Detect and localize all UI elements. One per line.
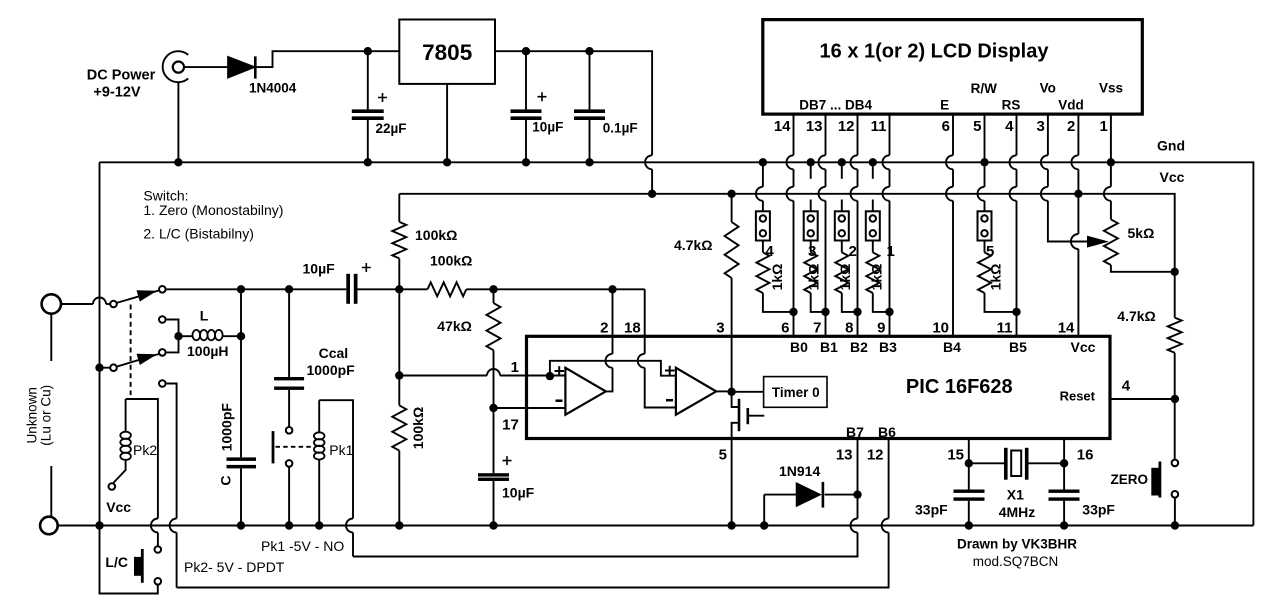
wire jack stem to Gnd rail xyxy=(177,82,179,162)
wire tank node xyxy=(240,289,242,457)
label 1kOhm xyxy=(869,264,885,291)
label Pk2 xyxy=(133,442,157,458)
terminal Vcc (Pk2 coil) xyxy=(109,483,116,490)
dashed DPDT link xyxy=(130,305,132,396)
wire diode to top rail xyxy=(257,51,400,67)
switch arm2 with arrow xyxy=(117,354,160,367)
wire node to Timer 0 xyxy=(732,391,764,393)
svg-text:X1: X1 xyxy=(1007,487,1024,503)
switch throw A xyxy=(159,286,166,293)
svg-text:0.1µF: 0.1µF xyxy=(603,121,638,136)
svg-text:6: 6 xyxy=(781,319,789,336)
svg-text:11: 11 xyxy=(997,319,1013,336)
svg-text:4MHz: 4MHz xyxy=(999,504,1036,520)
svg-text:2: 2 xyxy=(600,319,608,336)
resistor R 100k (horizontal) xyxy=(428,282,467,296)
svg-text:12: 12 xyxy=(867,447,884,464)
svg-text:Pk1: Pk1 xyxy=(329,442,353,458)
label 47kOhm xyxy=(437,318,472,334)
jumper JP3 xyxy=(804,162,818,240)
op-amp U1a xyxy=(565,368,605,415)
svg-text:5kΩ: 5kΩ xyxy=(1128,225,1155,241)
wire pin13 B7 xyxy=(857,439,859,519)
wire pin15 xyxy=(968,439,970,490)
label Drawn by VK3BHR xyxy=(957,537,1077,552)
inductor L 100uH xyxy=(179,330,242,340)
resistor R 1k (4) xyxy=(756,241,793,312)
terminal Unknown top xyxy=(42,294,61,313)
svg-text:1000pF: 1000pF xyxy=(219,403,235,452)
switch throw D xyxy=(159,380,166,387)
svg-text:15: 15 xyxy=(947,447,964,464)
svg-text:3: 3 xyxy=(1037,118,1045,135)
label 1kOhm xyxy=(806,264,822,291)
note Switch modes xyxy=(143,188,283,242)
switch throw B xyxy=(159,316,166,323)
svg-text:10µF: 10µF xyxy=(532,120,563,135)
label mod.SQ7BCN xyxy=(973,554,1059,569)
wire pin18 to op2 inverting xyxy=(644,289,646,354)
label Ccal 1000pF xyxy=(306,345,355,378)
capacitor C 33pF (right) xyxy=(1049,490,1080,526)
PIC port labels B0-B5 Vcc xyxy=(790,339,1096,355)
switch arm1 with arrow xyxy=(117,290,160,303)
label Unknown (Lu or Cu) rotated xyxy=(24,385,53,446)
svg-text:mod.SQ7BCN: mod.SQ7BCN xyxy=(973,554,1059,569)
wire Vcc line to Vcc rail xyxy=(651,169,653,194)
svg-text:B5: B5 xyxy=(1009,339,1027,355)
svg-text:33pF: 33pF xyxy=(1082,502,1115,518)
jumper JP2 xyxy=(835,162,849,240)
svg-text:Vcc: Vcc xyxy=(1160,169,1185,185)
svg-text:L: L xyxy=(200,308,209,324)
switch pole1 xyxy=(110,301,117,308)
svg-text:Gnd: Gnd xyxy=(1157,138,1185,154)
wire to pins 2 18 xyxy=(466,288,644,290)
wire Pk2 to L/C button xyxy=(126,399,158,519)
wire pin12 B6 xyxy=(888,439,890,519)
label PIC 16F628 xyxy=(906,376,1013,398)
resistor R 1k (5) xyxy=(978,241,1017,312)
label 100uH xyxy=(187,343,229,359)
svg-text:Drawn by VK3BHR: Drawn by VK3BHR xyxy=(957,537,1077,552)
switch pole2 xyxy=(110,364,117,371)
label X1 4MHz xyxy=(999,487,1036,521)
svg-text:Vo: Vo xyxy=(1040,81,1056,96)
LCD pin function labels xyxy=(799,81,1123,113)
wire LCD pin 6 E to PIC pin 10 xyxy=(952,114,954,155)
label 1kOhm xyxy=(988,264,1004,291)
label 5 xyxy=(986,243,994,260)
svg-text:Unknown: Unknown xyxy=(24,387,39,443)
svg-text:4: 4 xyxy=(1122,377,1131,394)
svg-text:Pk2: Pk2 xyxy=(133,442,157,458)
wire 1N914 anode to gnd xyxy=(763,495,765,526)
bottom Gnd rail xyxy=(58,525,1254,527)
svg-text:2: 2 xyxy=(849,243,857,260)
svg-text:10µF: 10µF xyxy=(502,485,535,501)
label 4.7kOhm xyxy=(1117,308,1155,324)
svg-text:1: 1 xyxy=(1100,118,1108,135)
wire throw D to B6 line xyxy=(166,384,177,519)
diode D1 1N4004 xyxy=(228,56,255,78)
op-amp U1b xyxy=(676,368,716,415)
wire op1 feedback xyxy=(550,361,676,376)
capacitor C 10uF (series) xyxy=(346,263,371,304)
svg-text:C: C xyxy=(218,476,234,486)
wire pin16 xyxy=(1063,439,1065,490)
svg-text:B3: B3 xyxy=(879,339,897,355)
svg-text:Pk2- 5V - DPDT: Pk2- 5V - DPDT xyxy=(184,559,285,575)
wire jack to diode xyxy=(184,66,228,68)
svg-text:DC Power: DC Power xyxy=(87,68,156,84)
label 22uF xyxy=(376,121,407,136)
svg-text:1kΩ: 1kΩ xyxy=(769,264,785,291)
microcontroller U1 PIC 16F628 box xyxy=(527,336,1111,438)
wire LCD pin 2 Vdd to Vcc and PIC pin 14 xyxy=(1077,114,1079,155)
svg-text:1: 1 xyxy=(887,243,895,260)
capacitor C 10uF (pin17) xyxy=(478,408,512,526)
wire cap to 100k xyxy=(358,288,428,290)
label L xyxy=(200,308,209,324)
resistor R 4.7k (pin 3) xyxy=(731,194,733,222)
resistor R 47k xyxy=(493,289,495,303)
diode D2 1N914 xyxy=(764,482,857,508)
pot wiper arrow xyxy=(1088,236,1108,247)
LCD pin numbers 14 13 12 11 6 5 4 3 2 1 xyxy=(774,118,1108,135)
svg-text:4.7kΩ: 4.7kΩ xyxy=(1117,308,1155,324)
svg-text:1. Zero (Monostabilny): 1. Zero (Monostabilny) xyxy=(143,202,283,218)
svg-text:PIC 16F628: PIC 16F628 xyxy=(906,376,1013,398)
PIC bottom pin numbers xyxy=(719,447,1094,464)
potentiometer R 5k xyxy=(1104,219,1118,265)
relay contact Pk1 xyxy=(273,427,312,467)
svg-text:7: 7 xyxy=(813,319,821,336)
relay coil Pk1 xyxy=(314,400,325,525)
svg-text:33pF: 33pF xyxy=(915,502,948,518)
svg-text:2: 2 xyxy=(1067,118,1075,135)
svg-text:Pk1 -5V - NO: Pk1 -5V - NO xyxy=(261,538,344,554)
jumper JP1 xyxy=(866,162,880,240)
regulator U2 7805 box xyxy=(399,20,495,84)
label Reset xyxy=(1060,389,1096,404)
Vcc rail xyxy=(399,194,1174,272)
wire LCD pin 3 Vo to pot wiper xyxy=(1047,114,1049,155)
label 4 xyxy=(765,243,774,260)
jumper JP5 xyxy=(978,211,992,240)
label 4.7kOhm xyxy=(674,237,712,253)
svg-text:16: 16 xyxy=(1077,447,1094,464)
svg-text:10: 10 xyxy=(932,319,949,336)
label 100kOhm rotated xyxy=(410,407,426,449)
LCD display module box xyxy=(763,20,1143,115)
label Vcc xyxy=(1160,169,1185,185)
label Pk1 -5V - NO xyxy=(261,538,344,554)
wire LCD pin 5 R/W to Gnd and jumper 5 xyxy=(984,114,986,187)
svg-text:B1: B1 xyxy=(820,339,838,355)
svg-text:1kΩ: 1kΩ xyxy=(988,264,1004,291)
svg-text:1000pF: 1000pF xyxy=(306,362,355,378)
svg-text:Vcc: Vcc xyxy=(1071,339,1096,355)
label 1kOhm xyxy=(769,264,785,291)
svg-text:E: E xyxy=(940,97,949,112)
wire top terminal to switch pole1 xyxy=(61,303,93,305)
svg-text:100kΩ: 100kΩ xyxy=(430,253,472,269)
capacitor C Ccal 1000pF xyxy=(274,377,304,427)
wire LCD pin 12 to PIC xyxy=(857,114,859,155)
svg-text:R/W: R/W xyxy=(971,81,998,96)
svg-text:1: 1 xyxy=(511,359,519,376)
svg-text:14: 14 xyxy=(774,118,791,135)
svg-text:11: 11 xyxy=(871,118,887,135)
label 1N914 xyxy=(779,463,820,479)
wire pin2 to op1 output xyxy=(612,289,614,354)
wire LCD pin 4 RS to PIC pin 11 xyxy=(1016,114,1018,155)
label 1 xyxy=(887,243,895,260)
label L/C xyxy=(105,554,128,570)
Gnd rail xyxy=(100,162,1254,525)
svg-text:8: 8 xyxy=(845,319,853,336)
label 0.1uF xyxy=(603,121,638,136)
capacitor C 10uF (input) xyxy=(511,51,547,162)
pushbutton ZERO xyxy=(1151,460,1178,498)
connector J1 DC power jack xyxy=(163,51,189,82)
svg-text:RS: RS xyxy=(1002,97,1021,112)
PIC labels B7 B6 xyxy=(846,424,896,440)
svg-text:100kΩ: 100kΩ xyxy=(415,227,457,243)
PIC top pin numbers xyxy=(600,319,1075,336)
svg-text:1N914: 1N914 xyxy=(779,463,820,479)
svg-text:(Lu or Cu): (Lu or Cu) xyxy=(39,385,54,446)
svg-text:12: 12 xyxy=(838,118,855,135)
wire op2 output node xyxy=(716,390,731,392)
label DC Power +9-12V xyxy=(87,68,156,101)
svg-text:1kΩ: 1kΩ xyxy=(869,264,885,291)
pushbutton L/C xyxy=(134,546,161,584)
svg-text:Vcc: Vcc xyxy=(106,499,131,515)
svg-text:B2: B2 xyxy=(850,339,868,355)
label 1N4004 xyxy=(249,81,297,96)
label pin 1 xyxy=(511,359,519,376)
label 100kOhm xyxy=(415,227,457,243)
label 10uF xyxy=(502,485,535,501)
resistor R 1k (1) xyxy=(866,241,889,312)
wire ZERO to bottom rail xyxy=(1174,498,1176,526)
wire Reset pin 4 xyxy=(1110,398,1175,400)
svg-text:Timer 0: Timer 0 xyxy=(772,385,820,400)
switch throw C xyxy=(159,349,166,356)
left Gnd drop wire xyxy=(100,162,158,593)
wire LCD pin 13 to PIC xyxy=(825,114,827,155)
label Gnd xyxy=(1157,138,1185,154)
resistor R 100k (to gnd) xyxy=(398,289,400,405)
svg-text:100µH: 100µH xyxy=(187,343,229,359)
svg-text:2. L/C (Bistabilny): 2. L/C (Bistabilny) xyxy=(143,226,253,242)
svg-text:22µF: 22µF xyxy=(376,121,407,136)
wire between terminals xyxy=(50,314,52,361)
svg-text:100kΩ: 100kΩ xyxy=(410,407,426,449)
wire pin17 xyxy=(494,407,566,409)
svg-text:ZERO: ZERO xyxy=(1110,472,1148,487)
label 16 x 1(or 2) LCD Display xyxy=(820,41,1050,63)
label 1000pF rotated xyxy=(219,403,235,452)
capacitor C 0.1uF xyxy=(574,51,605,162)
label 10uF xyxy=(532,120,563,135)
svg-text:L/C: L/C xyxy=(105,554,128,570)
svg-text:17: 17 xyxy=(502,417,519,434)
label 1kOhm xyxy=(837,264,853,291)
svg-text:5: 5 xyxy=(973,118,981,135)
label Pk2- 5V - DPDT xyxy=(184,559,285,575)
resistor R 100k (vertical from Vcc) xyxy=(398,194,400,222)
resistor R 4.7k (reset pullup) xyxy=(1174,272,1176,318)
svg-text:7805: 7805 xyxy=(422,40,472,65)
label Vcc xyxy=(106,499,131,515)
box Timer 0 xyxy=(764,377,827,408)
svg-text:14: 14 xyxy=(1058,319,1075,336)
label 2 xyxy=(849,243,857,260)
wire throws B C to inductor xyxy=(166,320,179,337)
label ZERO xyxy=(1110,472,1148,487)
svg-text:9: 9 xyxy=(877,319,885,336)
svg-text:Vdd: Vdd xyxy=(1058,97,1084,112)
capacitor C 22uF xyxy=(352,51,387,162)
wire hop 7805 Vcc line over Gnd rail xyxy=(645,155,652,169)
svg-text:+9-12V: +9-12V xyxy=(93,85,140,101)
capacitor C 33pF (left) xyxy=(954,490,985,526)
label 3 xyxy=(808,243,816,260)
resistor R 1k (3) xyxy=(804,241,825,312)
transistor Q1 xyxy=(732,392,765,526)
wire LCD pin 11 to PIC xyxy=(889,114,891,155)
svg-text:1kΩ: 1kΩ xyxy=(837,264,853,291)
svg-text:18: 18 xyxy=(624,319,641,336)
relay coil Pk2 xyxy=(113,399,131,484)
svg-text:4: 4 xyxy=(1005,118,1014,135)
wire oscillator node xyxy=(166,288,347,290)
svg-text:1N4004: 1N4004 xyxy=(249,81,297,96)
svg-text:B0: B0 xyxy=(790,339,808,355)
svg-text:B6: B6 xyxy=(878,424,896,440)
svg-text:16 x 1(or 2) LCD Display: 16 x 1(or 2) LCD Display xyxy=(820,41,1050,63)
wire 7805 gnd pin xyxy=(446,84,448,162)
wire pin1 xyxy=(399,375,487,377)
wire LCD pin 1 Vss to Gnd and pot top xyxy=(1110,114,1112,187)
svg-text:DB7 ... DB4: DB7 ... DB4 xyxy=(799,97,872,112)
svg-text:5: 5 xyxy=(719,447,727,464)
crystal X1 xyxy=(969,448,1064,480)
jumper JP4 xyxy=(756,162,770,240)
label 100kOhm xyxy=(430,253,472,269)
label 7805 xyxy=(422,40,472,65)
resistor R 1k (2) xyxy=(835,241,857,312)
capacitor C 1000pF xyxy=(227,457,257,525)
wire Pk1 coil to B7 line xyxy=(319,400,353,518)
svg-text:13: 13 xyxy=(836,447,853,464)
label Pk1 xyxy=(329,442,353,458)
svg-text:6: 6 xyxy=(942,118,950,135)
svg-text:13: 13 xyxy=(806,118,823,135)
label C rotated xyxy=(218,476,234,486)
svg-text:Reset: Reset xyxy=(1060,389,1096,404)
label pin 17 xyxy=(502,417,519,434)
svg-text:47kΩ: 47kΩ xyxy=(437,318,472,334)
svg-text:B7: B7 xyxy=(846,424,864,440)
svg-text:B4: B4 xyxy=(943,339,961,355)
label pin 4 xyxy=(1122,377,1131,394)
wire Ccal branch xyxy=(288,289,290,377)
switch pole2 junction xyxy=(100,367,111,369)
label 10uF xyxy=(303,261,336,277)
svg-text:10µF: 10µF xyxy=(303,261,336,277)
svg-text:1kΩ: 1kΩ xyxy=(806,264,822,291)
svg-text:Vss: Vss xyxy=(1099,81,1123,96)
wire Pk1 contact to gnd xyxy=(288,467,290,526)
wire LCD pin 14 to PIC xyxy=(793,114,795,155)
label 5kOhm xyxy=(1128,225,1155,241)
svg-text:3: 3 xyxy=(716,319,724,336)
svg-text:Ccal: Ccal xyxy=(319,345,349,361)
wire 7805 output top rail xyxy=(495,51,652,155)
terminal Unknown bottom xyxy=(40,517,58,535)
svg-text:4.7kΩ: 4.7kΩ xyxy=(674,237,712,253)
